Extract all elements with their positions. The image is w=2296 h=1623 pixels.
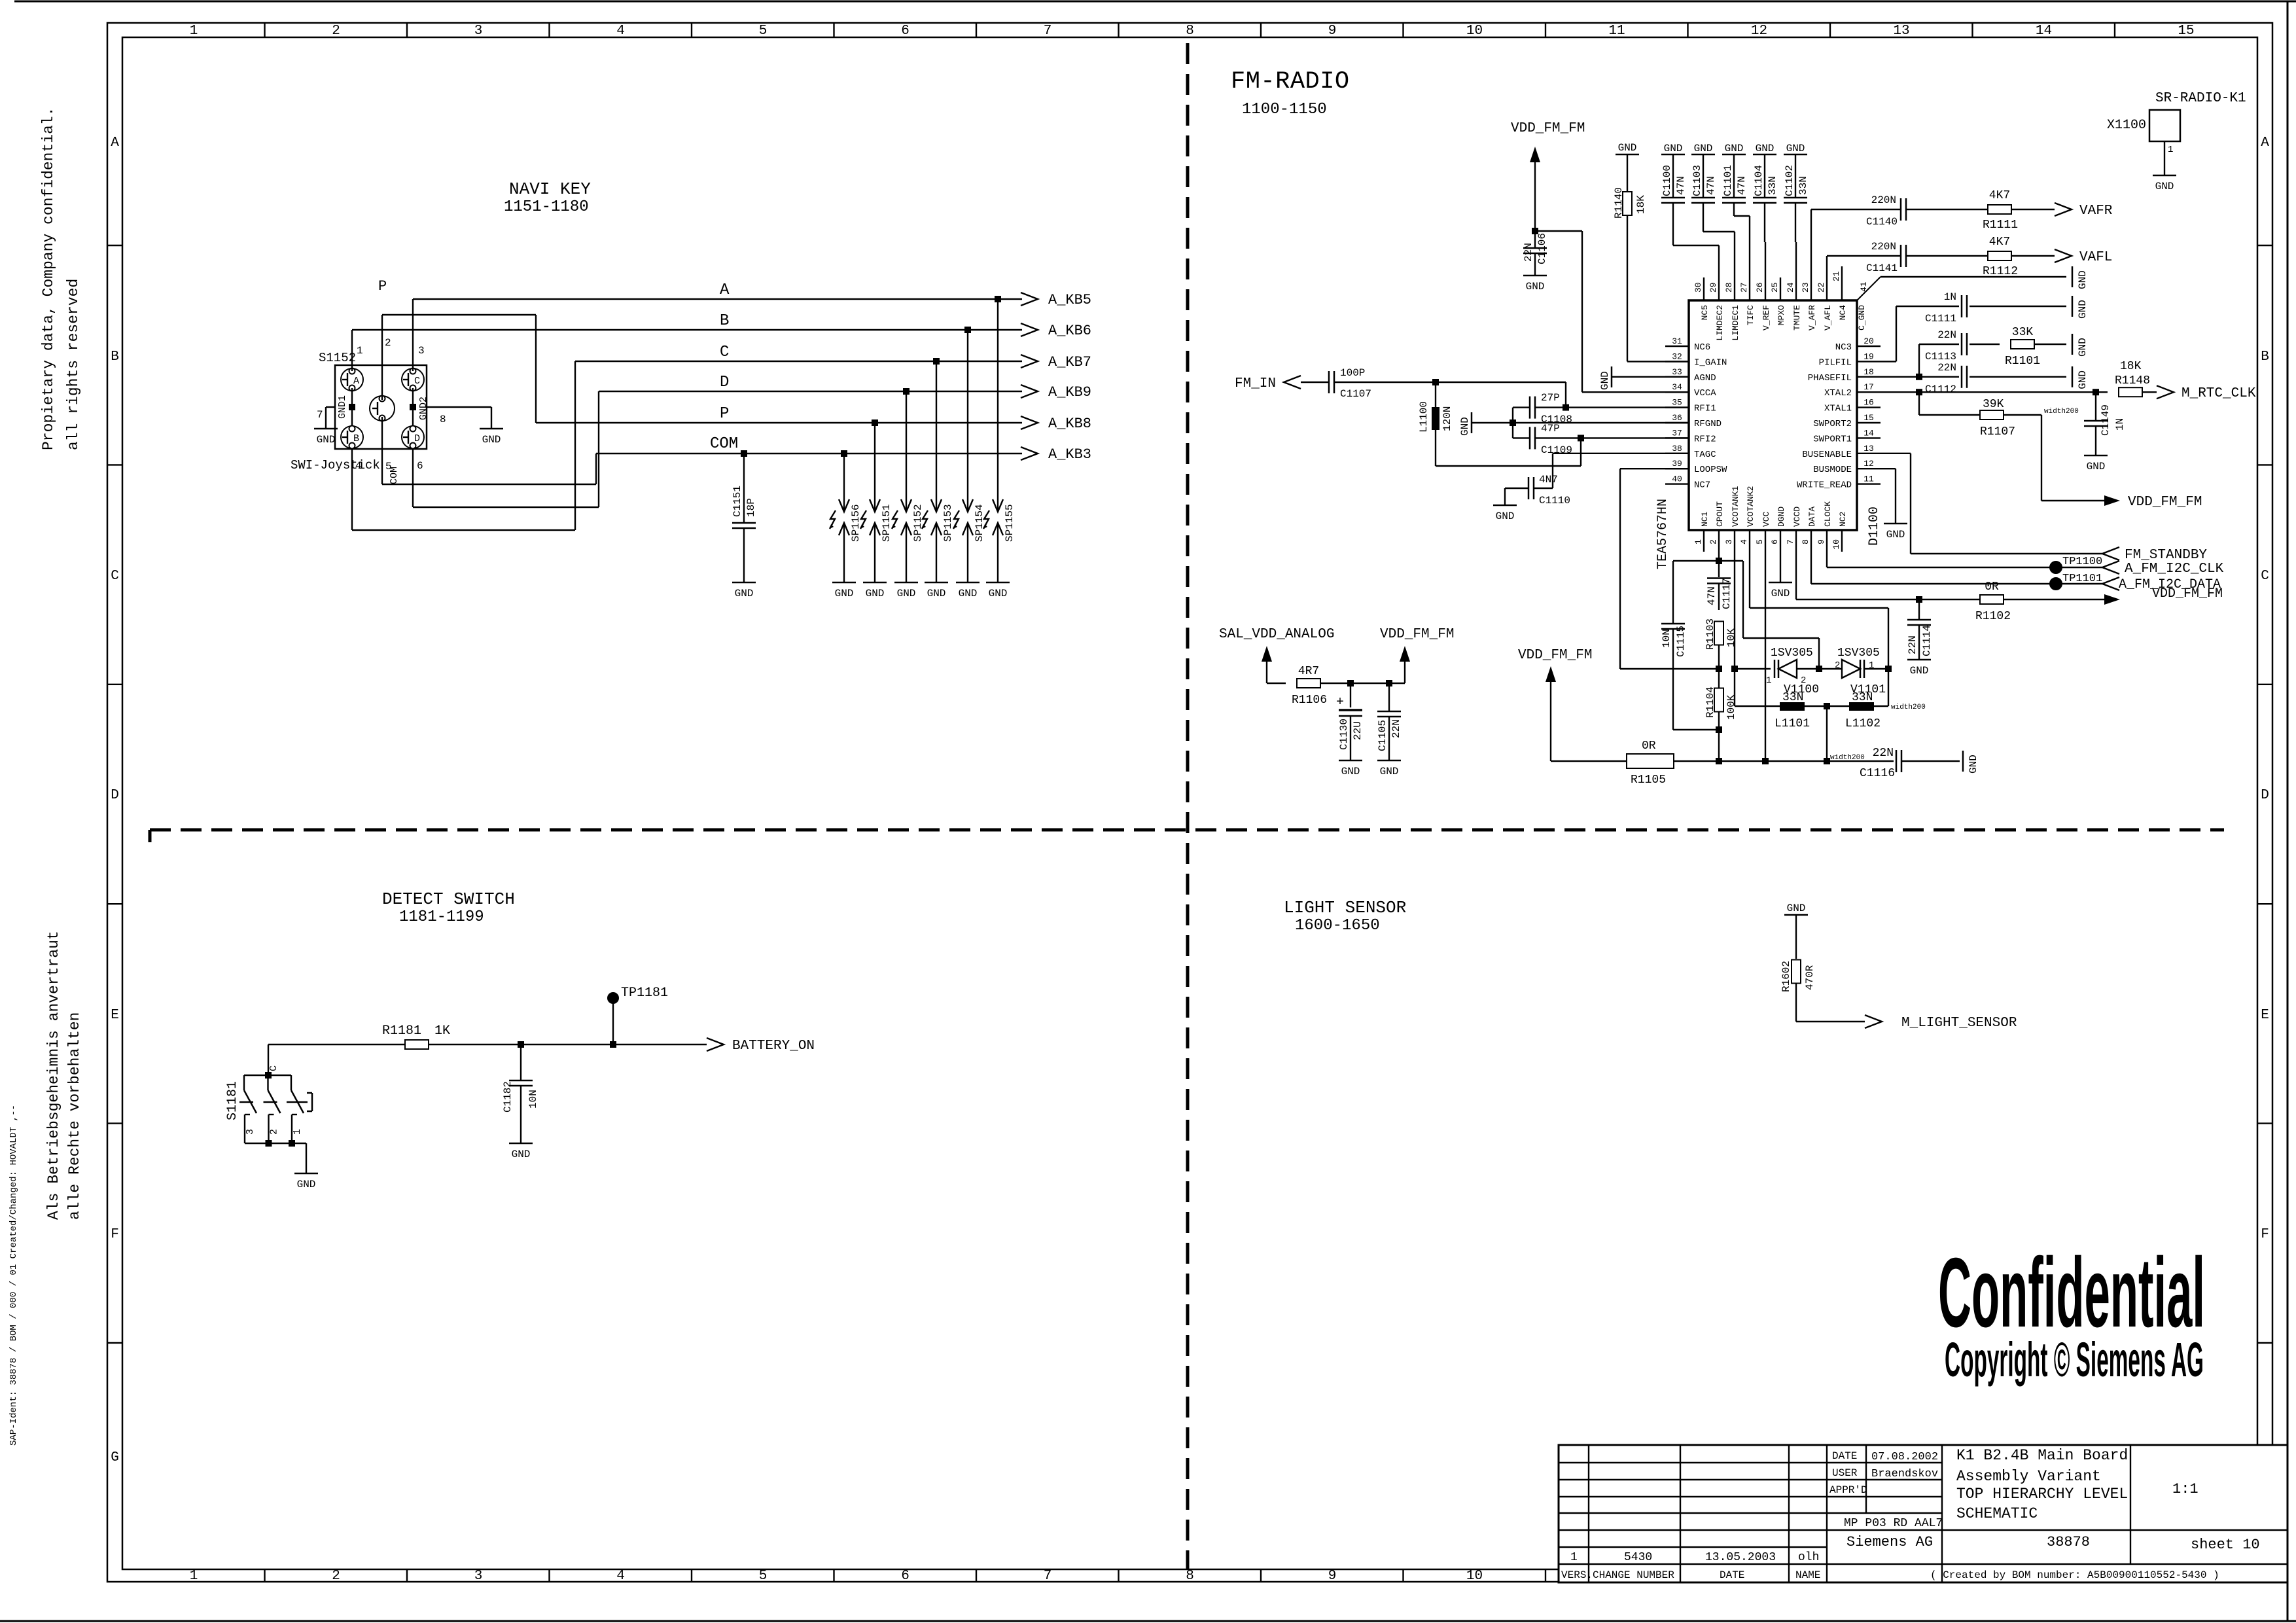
svg-text:S1152: S1152 bbox=[319, 351, 356, 365]
svg-text:GND: GND bbox=[1786, 143, 1805, 154]
svg-text:TIFC: TIFC bbox=[1746, 305, 1756, 325]
svg-text:1181-1199: 1181-1199 bbox=[399, 908, 484, 926]
svg-text:sheet 10: sheet 10 bbox=[2191, 1537, 2260, 1553]
svg-text:9: 9 bbox=[1328, 24, 1337, 39]
pin 28 LIMDEC1 of D1100 bbox=[1724, 277, 1740, 341]
svg-text:C1141: C1141 bbox=[1866, 262, 1898, 274]
svg-text:A: A bbox=[2261, 135, 2269, 151]
svg-text:I_GAIN: I_GAIN bbox=[1694, 357, 1727, 368]
wire VDD to VCCA bbox=[1535, 231, 1689, 392]
svg-text:10N: 10N bbox=[1661, 629, 1672, 648]
section title NAVI KEY bbox=[504, 179, 591, 216]
svg-text:SWI-Joystick: SWI-Joystick bbox=[291, 458, 380, 473]
svg-text:SWPORT1: SWPORT1 bbox=[1813, 434, 1852, 444]
svg-text:4K7: 4K7 bbox=[1989, 236, 2010, 249]
svg-text:A_FM_I2C_CLK: A_FM_I2C_CLK bbox=[2125, 562, 2224, 577]
ground under C1149 bbox=[2084, 455, 2108, 473]
svg-text:10N: 10N bbox=[527, 1090, 539, 1109]
svg-text:1: 1 bbox=[357, 345, 363, 357]
wire VCCD to R1102 bbox=[1796, 552, 1980, 603]
svg-text:FM_IN: FM_IN bbox=[1235, 376, 1276, 391]
svg-text:19: 19 bbox=[1863, 351, 1874, 361]
svg-text:D: D bbox=[111, 788, 119, 803]
svg-text:RFGND: RFGND bbox=[1694, 419, 1722, 429]
svg-text:VDD_FM_FM: VDD_FM_FM bbox=[1380, 627, 1454, 642]
svg-text:2: 2 bbox=[1835, 660, 1840, 671]
svg-text:GND: GND bbox=[1526, 281, 1545, 293]
svg-text:4N7: 4N7 bbox=[1539, 474, 1558, 486]
svg-text:C1100: C1100 bbox=[1661, 165, 1673, 196]
pin 20 NC3 of D1100 bbox=[1835, 336, 1881, 353]
svg-text:1600-1650: 1600-1650 bbox=[1295, 917, 1380, 935]
connector X1100 SR-RADIO-K1 bbox=[2107, 91, 2246, 141]
svg-text:E: E bbox=[111, 1008, 119, 1023]
svg-text:26: 26 bbox=[1755, 282, 1765, 293]
svg-text:C1113: C1113 bbox=[1925, 351, 1956, 363]
svg-text:FM-RADIO: FM-RADIO bbox=[1231, 68, 1350, 96]
svg-text:GND: GND bbox=[1599, 371, 1611, 390]
pin 1 wire X1100 to ground bbox=[2164, 141, 2173, 175]
wire S1181 to ground bbox=[306, 1143, 307, 1173]
svg-text:5430: 5430 bbox=[1624, 1551, 1652, 1564]
wire net P bus bbox=[536, 405, 1022, 423]
svg-text:GND: GND bbox=[735, 588, 754, 599]
svg-text:APPR'D: APPR'D bbox=[1829, 1484, 1867, 1496]
svg-text:39: 39 bbox=[1672, 459, 1682, 469]
ground at pin 8 bbox=[480, 429, 503, 446]
pin 10 NC2 of D1100 bbox=[1831, 512, 1848, 552]
svg-text:CPOUT: CPOUT bbox=[1715, 501, 1725, 527]
svg-text:L1102: L1102 bbox=[1845, 717, 1881, 730]
svg-text:47N: 47N bbox=[1706, 586, 1718, 605]
svg-text:C1182: C1182 bbox=[502, 1081, 514, 1113]
svg-text:14: 14 bbox=[2036, 24, 2052, 39]
svg-text:14: 14 bbox=[1863, 428, 1874, 438]
svg-text:NC5: NC5 bbox=[1700, 305, 1710, 320]
resistor R1102 0R bbox=[1975, 580, 2104, 623]
pushbutton B of S1152 bbox=[341, 426, 363, 449]
capacitor C1103 47N bbox=[1691, 143, 1735, 277]
svg-text:WRITE_READ: WRITE_READ bbox=[1797, 480, 1852, 491]
ground for C1116 bbox=[1963, 751, 1979, 774]
svg-text:0R: 0R bbox=[1642, 740, 1656, 753]
title block drawing title bbox=[1956, 1447, 2128, 1522]
svg-text:C1103: C1103 bbox=[1691, 165, 1703, 196]
svg-text:C1151: C1151 bbox=[732, 486, 743, 517]
svg-text:32: 32 bbox=[1672, 351, 1682, 361]
column index labels top bbox=[190, 23, 2195, 39]
svg-text:+: + bbox=[1336, 695, 1344, 710]
svg-text:width200: width200 bbox=[1891, 704, 1926, 711]
capacitor C1110 4N7 bbox=[1505, 454, 1689, 507]
svg-text:28: 28 bbox=[1724, 282, 1734, 293]
svg-text:24: 24 bbox=[1786, 282, 1795, 293]
svg-text:D1100: D1100 bbox=[1867, 507, 1882, 546]
pin 4 VCOTANK2 of D1100 bbox=[1739, 486, 1756, 552]
svg-text:GND: GND bbox=[1694, 143, 1713, 154]
svg-text:LIMDEC2: LIMDEC2 bbox=[1715, 305, 1725, 341]
pin 38 TAGC of D1100 bbox=[1665, 444, 1716, 460]
svg-text:NC1: NC1 bbox=[1700, 511, 1710, 527]
pin 31 NC6 of D1100 bbox=[1665, 336, 1710, 353]
svg-text:SCHEMATIC: SCHEMATIC bbox=[1956, 1505, 2038, 1522]
svg-text:C1114: C1114 bbox=[1921, 625, 1933, 656]
svg-text:1: 1 bbox=[1570, 1551, 1578, 1564]
pin 5 VCC of D1100 bbox=[1755, 511, 1771, 552]
signal arrow A_KB7 bbox=[1021, 354, 1091, 370]
svg-text:Als Betriebsgeheimnis anvertra: Als Betriebsgeheimnis anvertraut bbox=[45, 931, 62, 1220]
pushbutton D of S1152 bbox=[402, 426, 424, 449]
svg-text:C1101: C1101 bbox=[1722, 165, 1734, 196]
svg-text:alle Rechte vorbehalten: alle Rechte vorbehalten bbox=[66, 1012, 83, 1220]
svg-text:GND: GND bbox=[2077, 370, 2089, 389]
svg-text:C1109: C1109 bbox=[1541, 444, 1572, 456]
svg-text:1100-1150: 1100-1150 bbox=[1242, 101, 1327, 118]
svg-text:4K7: 4K7 bbox=[1989, 189, 2010, 202]
svg-text:470R: 470R bbox=[1804, 965, 1816, 990]
svg-text:2: 2 bbox=[269, 1129, 280, 1135]
svg-text:R1107: R1107 bbox=[1980, 425, 2015, 438]
test point TP1181 bbox=[608, 986, 668, 1048]
svg-text:27P: 27P bbox=[1541, 392, 1560, 404]
svg-text:3: 3 bbox=[245, 1129, 256, 1135]
svg-text:33N: 33N bbox=[1782, 691, 1803, 704]
svg-text:Braendskov: Braendskov bbox=[1871, 1468, 1938, 1480]
pin 30 NC5 of D1100 bbox=[1693, 277, 1710, 320]
svg-text:07.08.2002: 07.08.2002 bbox=[1871, 1451, 1938, 1463]
capacitor C1116 22N bbox=[1860, 747, 1960, 780]
svg-text:M_LIGHT_SENSOR: M_LIGHT_SENSOR bbox=[1901, 1016, 2017, 1031]
ground under C1110 bbox=[1493, 505, 1517, 522]
svg-text:7: 7 bbox=[1786, 539, 1795, 544]
title block BOM note bbox=[1930, 1569, 2219, 1581]
svg-text:GND: GND bbox=[1664, 143, 1683, 154]
pin 4 wire S1152 to net C bbox=[352, 361, 575, 530]
svg-text:100K: 100K bbox=[1725, 694, 1737, 720]
node GND1 of S1152 bbox=[337, 388, 355, 426]
varicap diode V1100 1SV305 bbox=[1735, 647, 1819, 696]
title block header row bbox=[1561, 1569, 1820, 1581]
capacitor C1104 33N bbox=[1753, 143, 1778, 277]
svg-text:GND: GND bbox=[1756, 143, 1775, 154]
svg-text:C1117: C1117 bbox=[1721, 578, 1733, 609]
pin 8 wire S1152 to ground bbox=[427, 407, 491, 429]
svg-text:18P: 18P bbox=[745, 498, 757, 517]
ground for C1111 bbox=[2072, 296, 2089, 319]
capacitor C1130 22U bbox=[1336, 680, 1364, 760]
svg-text:VAFL: VAFL bbox=[2079, 250, 2112, 265]
svg-text:NC6: NC6 bbox=[1694, 342, 1710, 353]
pin 8 DATA of D1100 bbox=[1801, 507, 1817, 552]
capacitor C1182 10N bbox=[502, 1041, 539, 1143]
svg-text:22: 22 bbox=[1816, 282, 1826, 293]
svg-text:C1107: C1107 bbox=[1340, 388, 1371, 400]
capacitor C1107 100P bbox=[1301, 367, 1436, 400]
wire pin41 C_GND to ground bbox=[1881, 276, 2066, 277]
svg-text:A_KB3: A_KB3 bbox=[1048, 446, 1091, 463]
svg-text:B: B bbox=[111, 349, 119, 365]
signal arrow A_KB5 bbox=[1021, 292, 1091, 308]
wire VCOTANK1 pin3 to tank bbox=[1731, 552, 1738, 706]
svg-text:34: 34 bbox=[1672, 382, 1682, 392]
svg-text:V_REF: V_REF bbox=[1761, 305, 1771, 330]
svg-text:47P: 47P bbox=[1541, 423, 1560, 435]
svg-text:R1140: R1140 bbox=[1613, 187, 1625, 219]
spark gap SP1154 bbox=[953, 327, 985, 599]
svg-text:L1101: L1101 bbox=[1775, 717, 1810, 730]
svg-text:30: 30 bbox=[1693, 282, 1703, 293]
svg-text:all rights reserved: all rights reserved bbox=[65, 279, 82, 450]
svg-text:GND: GND bbox=[2155, 181, 2174, 192]
svg-text:GND: GND bbox=[897, 588, 916, 599]
svg-text:CHANGE NUMBER: CHANGE NUMBER bbox=[1593, 1569, 1674, 1581]
svg-text:TMUTE: TMUTE bbox=[1792, 305, 1802, 330]
svg-text:GND: GND bbox=[2077, 338, 2089, 357]
svg-text:XTAL2: XTAL2 bbox=[1824, 388, 1852, 399]
svg-text:GND: GND bbox=[835, 588, 854, 599]
svg-text:3: 3 bbox=[418, 345, 425, 357]
svg-text:1: 1 bbox=[1766, 675, 1771, 686]
svg-text:R1111: R1111 bbox=[1983, 219, 2018, 232]
svg-text:36: 36 bbox=[1672, 413, 1682, 423]
svg-text:4: 4 bbox=[1739, 539, 1749, 544]
power arrow VDD_FM_FM bottom bbox=[1518, 648, 1627, 761]
column index labels bottom bbox=[190, 1569, 1545, 1584]
pushbutton A of S1152 bbox=[341, 368, 363, 391]
svg-text:4: 4 bbox=[616, 1569, 625, 1584]
svg-text:B: B bbox=[720, 312, 729, 330]
svg-text:15: 15 bbox=[1863, 413, 1874, 423]
svg-text:F: F bbox=[111, 1227, 119, 1242]
wire BUSENABLE to FM_STANDBY bbox=[1881, 454, 2102, 554]
svg-text:1N: 1N bbox=[2114, 418, 2126, 431]
svg-text:GND: GND bbox=[1380, 766, 1399, 777]
svg-text:VCC: VCC bbox=[1761, 511, 1771, 527]
capacitor C1111 1N bbox=[1881, 291, 2066, 361]
pin 24 TMUTE of D1100 bbox=[1786, 277, 1802, 330]
signal arrow A_FM_I2C_DATA bbox=[2102, 577, 2221, 592]
pin 19 PILFIL of D1100 bbox=[1819, 351, 1881, 368]
resistor R1104 100K bbox=[1704, 666, 1737, 764]
svg-text:SP1152: SP1152 bbox=[912, 504, 924, 542]
signal arrow A_FM_I2C_CLK bbox=[2102, 561, 2224, 577]
svg-text:DATA: DATA bbox=[1807, 507, 1817, 527]
svg-text:40: 40 bbox=[1672, 474, 1682, 484]
pin 33 AGND of D1100 bbox=[1665, 367, 1716, 383]
ground for C_GND bbox=[2072, 266, 2089, 289]
power arrow SAL_VDD_ANALOG bbox=[1219, 627, 1334, 683]
svg-text:R1181: R1181 bbox=[382, 1024, 421, 1039]
wire LOOPSW net bbox=[1620, 469, 1719, 669]
ground above R1602 bbox=[1784, 902, 1808, 915]
pin 17 XTAL2 of D1100 bbox=[1824, 382, 1881, 399]
svg-text:TP1100: TP1100 bbox=[2062, 556, 2102, 568]
svg-text:GND: GND bbox=[959, 588, 978, 599]
svg-text:18K: 18K bbox=[2120, 360, 2142, 373]
pin 15 SWPORT2 of D1100 bbox=[1813, 413, 1881, 429]
svg-text:S1181: S1181 bbox=[225, 1081, 240, 1120]
svg-text:5: 5 bbox=[759, 1569, 768, 1584]
svg-text:SAP-Ident: 38878 / BOM / 000 /: SAP-Ident: 38878 / BOM / 000 / 01 Create… bbox=[9, 1105, 19, 1446]
svg-text:R1602: R1602 bbox=[1780, 961, 1792, 992]
svg-text:GND: GND bbox=[1787, 902, 1806, 914]
svg-text:120N: 120N bbox=[1441, 406, 1453, 431]
svg-text:GND: GND bbox=[866, 588, 885, 599]
svg-text:9: 9 bbox=[1816, 539, 1826, 544]
svg-text:NAME: NAME bbox=[1795, 1569, 1820, 1581]
svg-text:39K: 39K bbox=[1983, 398, 2004, 411]
svg-text:0R: 0R bbox=[1985, 580, 1999, 594]
svg-text:13.05.2003: 13.05.2003 bbox=[1705, 1551, 1776, 1564]
svg-text:47N: 47N bbox=[1736, 176, 1748, 195]
pin 37 RFI2 of D1100 bbox=[1665, 428, 1716, 444]
svg-text:PHASEFIL: PHASEFIL bbox=[1808, 373, 1852, 383]
dashed section divider vertical bbox=[1186, 43, 1190, 1569]
wire net COM bus bbox=[596, 435, 1022, 454]
IC D1100 TEA5767HN body bbox=[1655, 277, 1882, 569]
section title FM-RADIO bbox=[1231, 68, 1350, 118]
svg-text:C1110: C1110 bbox=[1539, 495, 1570, 507]
title block sheet 10 bbox=[2191, 1537, 2260, 1553]
pin 14 SWPORT1 of D1100 bbox=[1813, 428, 1881, 444]
ground under DGND pin 6 bbox=[1769, 552, 1792, 599]
svg-text:R1104: R1104 bbox=[1704, 687, 1716, 718]
wire L1100 to RFI2 node bbox=[1436, 435, 1584, 466]
svg-text:R1112: R1112 bbox=[1983, 265, 2018, 278]
svg-text:18: 18 bbox=[1863, 367, 1874, 377]
signal arrow A_KB6 bbox=[1021, 323, 1091, 339]
pin 1 wire S1152 to net B bbox=[352, 330, 363, 371]
svg-text:5: 5 bbox=[759, 24, 768, 39]
svg-text:TEA5767HN: TEA5767HN bbox=[1655, 499, 1670, 569]
svg-text:4: 4 bbox=[355, 460, 362, 472]
svg-text:47N: 47N bbox=[1675, 176, 1687, 195]
wire BUSMODE to ground bbox=[1881, 469, 1896, 524]
svg-text:A_KB8: A_KB8 bbox=[1048, 416, 1091, 432]
pin 41 C_GND of D1100 bbox=[1857, 281, 1869, 330]
svg-text:23: 23 bbox=[1801, 282, 1810, 293]
svg-text:TP1181: TP1181 bbox=[621, 986, 668, 1001]
pin 39 LOOPSW of D1100 bbox=[1665, 459, 1727, 475]
svg-text:15: 15 bbox=[2178, 24, 2194, 39]
svg-text:MPXO: MPXO bbox=[1776, 305, 1786, 325]
title block table bbox=[1559, 1445, 2287, 1582]
svg-text:6: 6 bbox=[1770, 539, 1780, 544]
capacitor C1149 1N bbox=[2084, 392, 2126, 455]
svg-text:GND: GND bbox=[2087, 461, 2106, 473]
pin 21 NC4 of D1100 bbox=[1831, 266, 1848, 320]
svg-text:1SV305: 1SV305 bbox=[1771, 647, 1813, 660]
svg-text:25: 25 bbox=[1770, 282, 1780, 293]
pin 5 wire S1152 to net COM bbox=[382, 417, 596, 484]
wire VCC pin5 to supply rail bbox=[1765, 552, 1766, 761]
ground under C1114 bbox=[1907, 660, 1931, 677]
svg-text:RFI2: RFI2 bbox=[1694, 434, 1716, 444]
wire net D bus bbox=[599, 374, 1022, 391]
svg-text:4R7: 4R7 bbox=[1298, 665, 1319, 678]
svg-text:GND: GND bbox=[1341, 766, 1360, 777]
svg-text:4: 4 bbox=[616, 24, 625, 39]
pin 26 V_REF of D1100 bbox=[1755, 277, 1771, 330]
svg-text:Copyright © Siemens AG: Copyright © Siemens AG bbox=[1945, 1332, 2204, 1387]
svg-text:NC7: NC7 bbox=[1694, 480, 1710, 491]
svg-text:17: 17 bbox=[1863, 382, 1874, 392]
wire R1107 to VDD_FM_FM arrow bbox=[2041, 415, 2106, 501]
svg-text:P: P bbox=[378, 278, 387, 294]
svg-text:27: 27 bbox=[1739, 282, 1749, 293]
svg-text:1151-1180: 1151-1180 bbox=[504, 198, 589, 216]
svg-text:37: 37 bbox=[1672, 428, 1682, 438]
svg-text:SP1153: SP1153 bbox=[942, 504, 954, 542]
svg-text:GND: GND bbox=[297, 1179, 316, 1190]
svg-text:13: 13 bbox=[1863, 444, 1874, 454]
signal arrow A_KB3 bbox=[1021, 446, 1091, 463]
node GND2 of S1152 bbox=[410, 388, 429, 426]
capacitor C1108 27P bbox=[1513, 392, 1689, 425]
svg-text:L1100: L1100 bbox=[1418, 401, 1430, 433]
resistor R1107 39K bbox=[1919, 392, 2079, 438]
svg-text:10: 10 bbox=[1831, 539, 1841, 550]
resistor R1181 1K bbox=[382, 1024, 450, 1049]
svg-text:TAGC: TAGC bbox=[1694, 450, 1716, 460]
svg-text:18K: 18K bbox=[1635, 195, 1647, 214]
svg-text:2: 2 bbox=[385, 337, 391, 349]
pin 36 RFGND of D1100 bbox=[1665, 413, 1722, 429]
svg-text:MP P03 RD AAL7: MP P03 RD AAL7 bbox=[1844, 1517, 1943, 1530]
svg-text:2: 2 bbox=[1801, 675, 1806, 686]
svg-text:2: 2 bbox=[332, 1569, 340, 1584]
section title DETECT SWITCH bbox=[382, 889, 515, 926]
svg-text:GND: GND bbox=[927, 588, 946, 599]
capacitor C1106 22N bbox=[1523, 231, 1548, 276]
svg-text:D: D bbox=[720, 374, 729, 391]
varicap diode V1101 1SV305 bbox=[1816, 647, 1892, 696]
svg-text:A: A bbox=[111, 135, 119, 151]
svg-text:SP1155: SP1155 bbox=[1004, 504, 1016, 542]
svg-text:USER: USER bbox=[1832, 1467, 1858, 1479]
svg-text:LOOPSW: LOOPSW bbox=[1694, 465, 1727, 475]
watermark Copyright (C) Siemens AG bbox=[1945, 1332, 2204, 1387]
svg-text:NC4: NC4 bbox=[1838, 305, 1848, 321]
svg-text:FM_STANDBY: FM_STANDBY bbox=[2125, 548, 2207, 563]
svg-text:C: C bbox=[2261, 569, 2269, 584]
signal arrow A_KB9 bbox=[1021, 384, 1091, 401]
svg-text:D: D bbox=[2261, 788, 2269, 803]
svg-text:38: 38 bbox=[1672, 444, 1682, 454]
svg-text:D: D bbox=[414, 433, 420, 444]
svg-text:GND: GND bbox=[1771, 588, 1790, 599]
capacitor C1140 220N bbox=[1811, 194, 1988, 277]
svg-text:3: 3 bbox=[474, 1569, 483, 1584]
svg-text:VCCA: VCCA bbox=[1694, 388, 1716, 399]
svg-text:C: C bbox=[111, 569, 119, 584]
svg-text:10: 10 bbox=[1466, 24, 1483, 39]
svg-text:22N: 22N bbox=[1390, 719, 1402, 738]
pin 12 BUSMODE of D1100 bbox=[1813, 459, 1881, 475]
svg-text:A_KB6: A_KB6 bbox=[1048, 323, 1091, 339]
svg-text:LIGHT SENSOR: LIGHT SENSOR bbox=[1284, 898, 1406, 918]
svg-text:VDD_FM_FM: VDD_FM_FM bbox=[1511, 121, 1585, 136]
svg-text:E: E bbox=[2261, 1008, 2269, 1023]
resistor R1106 4R7 bbox=[1292, 665, 1405, 707]
svg-text:21: 21 bbox=[1831, 271, 1841, 281]
svg-text:R1102: R1102 bbox=[1975, 610, 2011, 623]
wire DATA to A_FM_I2C_DATA bbox=[1811, 552, 2102, 584]
title block field APPR'D bbox=[1829, 1484, 1867, 1496]
svg-text:220N: 220N bbox=[1871, 194, 1896, 206]
svg-text:R1148: R1148 bbox=[2115, 374, 2150, 387]
wire XTAL2 to M_RTC_CLK bbox=[1881, 389, 2108, 395]
